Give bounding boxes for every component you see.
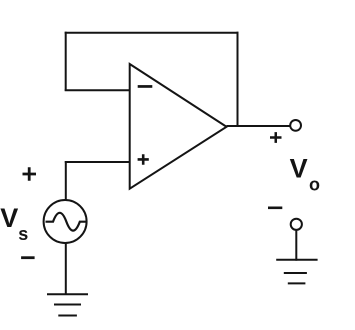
ground right middle bar — [284, 272, 307, 274]
svg-text:V: V — [0, 203, 18, 233]
op-amp U1 inverting pin label minus — [138, 85, 153, 88]
voltage source VS sine wave — [46, 213, 87, 231]
wire non-inverting input horizontal — [65, 161, 130, 163]
voltage source VS polarity minus — [21, 256, 34, 259]
wire feedback top horizontal — [65, 32, 239, 34]
ground left bottom bar — [58, 315, 77, 317]
wire source bottom vertical — [65, 244, 67, 296]
label Vo — [290, 154, 320, 195]
op-amp U1 non-inverting pin label plus — [138, 154, 149, 165]
node lower right terminal circle — [291, 219, 302, 230]
label Vs — [0, 203, 28, 244]
svg-text:V: V — [290, 154, 308, 184]
svg-text:s: s — [18, 224, 28, 244]
wire source top vertical — [65, 161, 67, 200]
ground right bottom bar — [288, 282, 306, 284]
output polarity plus — [270, 132, 282, 143]
voltage source VS circle — [44, 200, 87, 243]
ground left middle bar — [54, 304, 81, 306]
wire inverting input horizontal — [65, 89, 130, 91]
wire right terminal vertical — [295, 230, 297, 261]
op-amp U1 triangle — [130, 64, 227, 189]
wire feedback right vertical — [237, 32, 239, 127]
ground left top bar — [47, 293, 88, 295]
ground right top bar — [276, 259, 317, 261]
wire feedback left vertical — [65, 32, 67, 91]
node output terminal circle — [290, 120, 301, 131]
wire output horizontal — [227, 125, 291, 127]
voltage source VS polarity plus — [23, 167, 37, 181]
lower right polarity minus — [268, 207, 282, 210]
svg-text:o: o — [309, 174, 320, 194]
